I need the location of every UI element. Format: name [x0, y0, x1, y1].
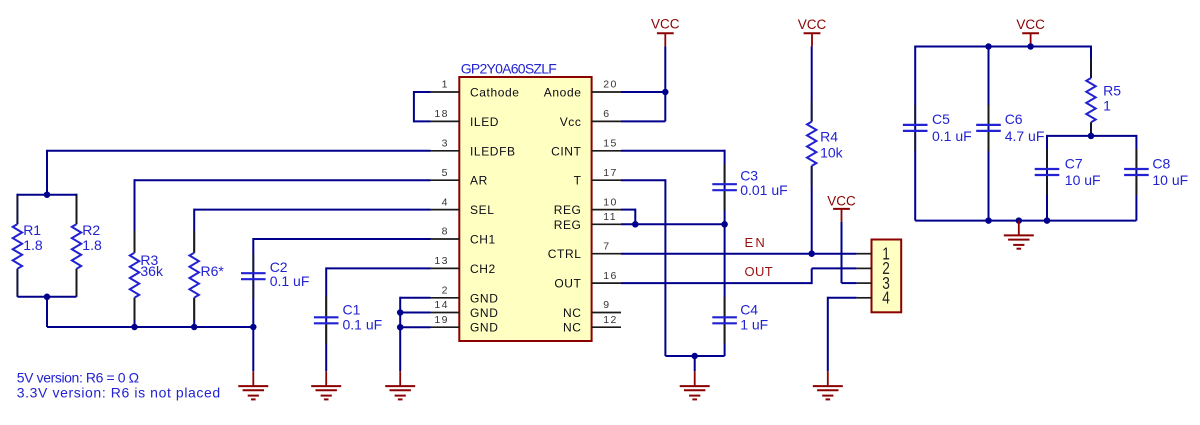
- wire R1R2 bottom to rail: [46, 296, 48, 327]
- pin 8 CH1 (left): [431, 226, 496, 247]
- wire OUT net pin16 to connector: [621, 268, 857, 284]
- ground below IC GND pins: [385, 371, 415, 399]
- svg-text:3.3V version: R6 is not placed: 3.3V version: R6 is not placed: [17, 384, 221, 400]
- resistor R3: [130, 179, 431, 327]
- pin 15 CINT (right): [551, 138, 621, 159]
- svg-text:13: 13: [434, 255, 449, 267]
- svg-text:C4: C4: [740, 302, 758, 318]
- IC U1 name label GP2Y0A60SZLF: [461, 60, 556, 76]
- capacitor C7: [1035, 135, 1101, 221]
- svg-text:0.1 uF: 0.1 uF: [932, 128, 972, 144]
- wire pin17 T net: [621, 179, 725, 356]
- wire T junction to ground: [694, 356, 696, 371]
- svg-text:C6: C6: [1005, 111, 1023, 127]
- node rail-C2 junction: [250, 324, 256, 331]
- resistor R4: [807, 46, 844, 253]
- wire C7/C8 top rail: [1047, 135, 1136, 137]
- ground below C1: [311, 371, 341, 399]
- resistor R1: [13, 194, 43, 297]
- pin 1 Cathode (left): [431, 79, 520, 100]
- wire pin3 ILEDFB net: [47, 150, 431, 195]
- op-amp U1 GP2Y0A60SZLF IC body: [459, 77, 591, 341]
- capacitor C4: [712, 297, 768, 343]
- svg-text:R4: R4: [820, 128, 838, 144]
- node T-ground junction: [691, 353, 698, 360]
- svg-text:11: 11: [603, 211, 617, 223]
- wire right block top rail: [915, 45, 1091, 47]
- svg-text:VCC: VCC: [798, 17, 827, 32]
- svg-text:1: 1: [442, 79, 449, 91]
- connector pin 1: [857, 244, 890, 264]
- capacitor C1: [314, 267, 431, 371]
- svg-text:C3: C3: [740, 167, 758, 183]
- pin 13 CH2 (left): [431, 255, 496, 276]
- svg-text:36k: 36k: [140, 263, 164, 279]
- svg-text:CTRL: CTRL: [548, 247, 582, 261]
- node GND pin14 junction: [397, 309, 404, 316]
- capacitor C8: [1124, 135, 1188, 221]
- pin 6 Vcc (right): [560, 108, 621, 129]
- svg-text:GP2Y0A60SZLF: GP2Y0A60SZLF: [461, 60, 556, 76]
- svg-text:NC: NC: [563, 306, 582, 320]
- connector pin 2: [857, 258, 890, 278]
- svg-text:7: 7: [603, 240, 610, 252]
- svg-text:OUT: OUT: [554, 277, 581, 291]
- svg-text:0.1 uF: 0.1 uF: [270, 273, 310, 289]
- svg-text:CH1: CH1: [470, 233, 496, 247]
- wire pin1-pin18 loop: [414, 91, 431, 122]
- ground below C2: [238, 371, 268, 399]
- svg-text:SEL: SEL: [470, 203, 494, 217]
- svg-text:OUT: OUT: [745, 264, 774, 279]
- svg-text:T: T: [574, 174, 582, 188]
- svg-text:2: 2: [442, 285, 449, 297]
- svg-text:VCC: VCC: [651, 17, 680, 32]
- svg-text:4: 4: [882, 288, 890, 308]
- ground below connector: [813, 371, 843, 399]
- svg-text:9: 9: [603, 299, 610, 311]
- svg-text:19: 19: [434, 314, 449, 326]
- pin 20 Anode (right): [544, 79, 621, 100]
- pin 10 REG (right): [554, 196, 621, 217]
- resistor R5: [1086, 46, 1121, 136]
- net label EN: [745, 235, 767, 250]
- svg-text:10 uF: 10 uF: [1152, 172, 1188, 188]
- svg-text:20: 20: [603, 79, 618, 91]
- wire EN net pin7 to connector: [621, 253, 857, 255]
- svg-text:ILEDFB: ILEDFB: [470, 144, 516, 158]
- wire right block bottom rail: [915, 220, 1136, 222]
- connector J1 body: [872, 240, 902, 313]
- svg-text:CH2: CH2: [470, 262, 496, 276]
- resistor R6*: [190, 209, 431, 327]
- pin 3 ILEDFB (left): [431, 138, 516, 159]
- note 3.3V version text: [17, 384, 221, 400]
- node R1R2 top junction: [44, 191, 51, 198]
- svg-text:Vcc: Vcc: [560, 115, 582, 129]
- svg-text:4: 4: [442, 196, 449, 208]
- svg-text:0.01 uF: 0.01 uF: [740, 182, 787, 198]
- pin 18 ILED (left): [431, 108, 500, 129]
- wire R1/R2 top bar: [17, 194, 76, 196]
- svg-text:C1: C1: [343, 302, 361, 318]
- svg-text:AR: AR: [470, 174, 488, 188]
- wire VCC3 to connector pin3: [842, 222, 857, 283]
- node bottom rail C6 junction: [985, 217, 992, 224]
- svg-text:C8: C8: [1152, 155, 1170, 171]
- net label OUT: [745, 264, 774, 279]
- svg-text:17: 17: [603, 167, 618, 179]
- pin 14 GND (left): [431, 299, 499, 320]
- svg-text:ILED: ILED: [470, 115, 499, 129]
- svg-text:Anode: Anode: [544, 86, 582, 100]
- node rail-R6 junction: [191, 324, 198, 331]
- svg-text:5: 5: [442, 167, 449, 179]
- svg-text:18: 18: [434, 108, 449, 120]
- wire GND pins net: [400, 297, 430, 372]
- svg-text:6: 6: [603, 108, 610, 120]
- svg-text:3: 3: [442, 138, 449, 150]
- pin 5 AR (left): [431, 167, 488, 188]
- svg-text:10 uF: 10 uF: [1065, 172, 1101, 188]
- pin 11 REG (right): [554, 211, 621, 232]
- svg-text:GND: GND: [470, 321, 498, 335]
- power VCC symbol 1: [651, 17, 680, 47]
- power VCC symbol 4: [1016, 17, 1045, 46]
- node rail-R3 junction: [131, 324, 138, 331]
- svg-text:GND: GND: [470, 291, 498, 305]
- pin 4 SEL (left): [431, 196, 495, 217]
- node R5 bottom junction: [1088, 133, 1095, 140]
- svg-text:14: 14: [434, 299, 449, 311]
- svg-text:1.8: 1.8: [82, 237, 102, 253]
- ground below C4: [680, 371, 710, 399]
- pin 9 NC (right): [563, 299, 621, 320]
- svg-text:CINT: CINT: [551, 144, 581, 158]
- svg-text:GND: GND: [470, 306, 498, 320]
- wire pin15 CINT net: [621, 150, 725, 356]
- svg-text:REG: REG: [554, 218, 582, 232]
- wire R1/R2 bottom bar: [17, 296, 76, 298]
- power VCC symbol 2: [798, 17, 827, 46]
- power VCC symbol 3: [827, 194, 856, 222]
- pin 17 T (right): [574, 167, 621, 188]
- svg-text:EN: EN: [745, 235, 767, 250]
- ground right block: [1004, 221, 1034, 249]
- pin 2 GND (left): [431, 285, 499, 306]
- pin 12 NC (right): [563, 314, 621, 335]
- svg-text:1: 1: [1103, 98, 1111, 114]
- node bottom rail C7 junction: [1044, 217, 1051, 224]
- capacitor C2: [241, 238, 431, 371]
- node top rail C6 junction: [985, 43, 992, 50]
- pin 7 CTRL (right): [548, 240, 621, 261]
- capacitor C3: [712, 164, 787, 210]
- svg-text:1 uF: 1 uF: [740, 317, 768, 333]
- svg-text:R1: R1: [23, 222, 41, 238]
- svg-text:VCC: VCC: [827, 194, 856, 209]
- svg-text:R5: R5: [1103, 83, 1121, 99]
- node REG-C3 junction: [721, 221, 728, 228]
- svg-text:REG: REG: [554, 203, 582, 217]
- svg-text:8: 8: [442, 226, 449, 238]
- connector pin 4: [857, 288, 890, 308]
- node VCC pin20 junction: [662, 89, 669, 96]
- wire left ground rail: [47, 326, 253, 328]
- svg-text:R6*: R6*: [201, 263, 225, 279]
- node R1R2 bottom junction: [44, 294, 51, 301]
- svg-text:0.1 uF: 0.1 uF: [343, 317, 383, 333]
- node REG junction: [632, 221, 639, 228]
- node GND pin19 junction: [397, 324, 404, 331]
- svg-text:C5: C5: [932, 111, 950, 127]
- node bottom rail ground junction: [1016, 217, 1023, 224]
- wire connector pin4 to ground: [828, 297, 857, 372]
- node top rail VCC junction: [1027, 43, 1034, 50]
- svg-text:Cathode: Cathode: [470, 86, 520, 100]
- svg-text:R2: R2: [82, 222, 100, 238]
- svg-text:C7: C7: [1065, 155, 1083, 171]
- svg-text:10k: 10k: [820, 144, 844, 160]
- svg-text:NC: NC: [563, 321, 582, 335]
- svg-text:5V version: R6 = 0 Ω: 5V version: R6 = 0 Ω: [17, 370, 139, 386]
- resistor R2: [72, 194, 102, 297]
- svg-text:10: 10: [603, 196, 618, 208]
- svg-text:1.8: 1.8: [23, 237, 43, 253]
- note 5V version text: [17, 370, 139, 386]
- wire VCC1 to pin20/pin6: [621, 46, 665, 121]
- capacitor C5: [903, 46, 972, 221]
- pin 16 OUT (right): [554, 270, 621, 291]
- svg-text:16: 16: [603, 270, 618, 282]
- svg-text:15: 15: [603, 138, 618, 150]
- connector pin 3: [857, 273, 890, 293]
- pin 19 GND (left): [431, 314, 499, 335]
- wire REG pin10-pin11: [621, 209, 725, 225]
- svg-text:VCC: VCC: [1016, 17, 1045, 32]
- svg-text:12: 12: [603, 314, 618, 326]
- svg-text:4.7 uF: 4.7 uF: [1005, 128, 1045, 144]
- capacitor C6: [976, 46, 1044, 221]
- node EN-R4 junction: [808, 250, 815, 257]
